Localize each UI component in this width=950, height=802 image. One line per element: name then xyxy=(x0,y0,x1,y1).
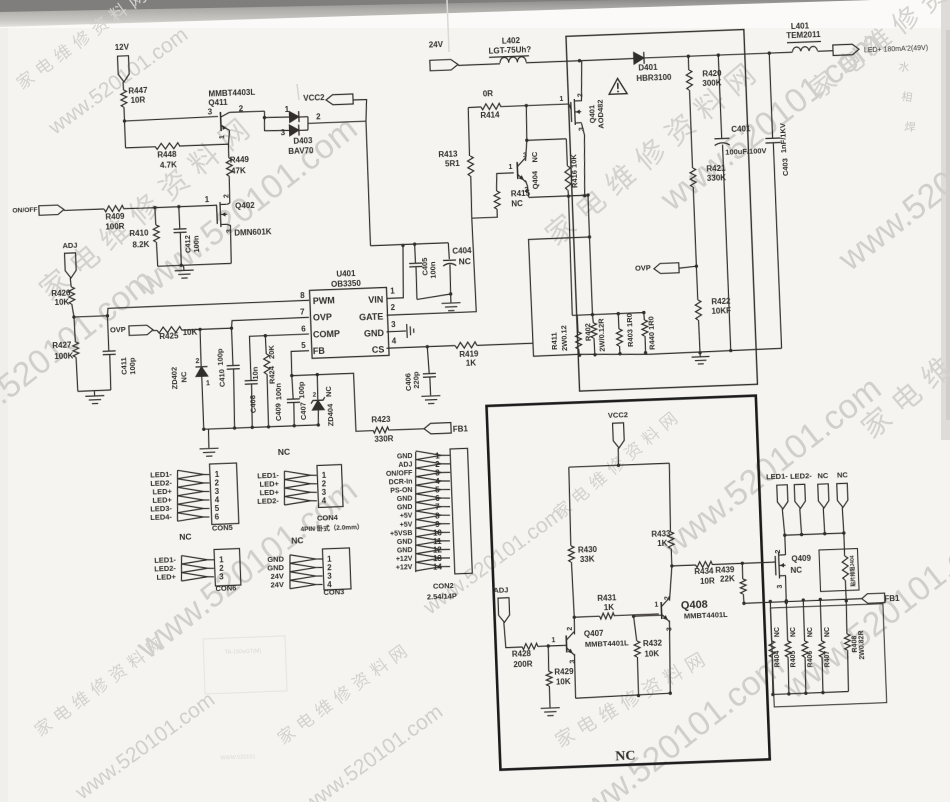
svg-text:Q402: Q402 xyxy=(235,201,255,211)
svg-text:R406: R406 xyxy=(807,650,815,667)
svg-text:R449: R449 xyxy=(230,155,250,165)
svg-text:10K: 10K xyxy=(54,298,69,308)
svg-text:GND: GND xyxy=(364,328,385,339)
svg-text:2: 2 xyxy=(567,626,574,630)
svg-text:R427: R427 xyxy=(52,341,72,351)
svg-text:MMBT4403L: MMBT4403L xyxy=(208,88,255,99)
svg-text:2W/0.12R: 2W/0.12R xyxy=(596,318,606,352)
svg-text:VCC2: VCC2 xyxy=(608,410,628,420)
svg-text:DCR-In: DCR-In xyxy=(389,478,413,486)
svg-text:14: 14 xyxy=(433,562,443,571)
svg-text:R409: R409 xyxy=(105,212,125,222)
svg-text:ADJ: ADJ xyxy=(398,461,412,469)
svg-text:Q409: Q409 xyxy=(791,554,811,564)
svg-text:1nF/1KV: 1nF/1KV xyxy=(778,123,788,153)
svg-text:NC: NC xyxy=(179,371,188,383)
svg-text:R448: R448 xyxy=(157,150,177,160)
svg-text:200R: 200R xyxy=(513,660,533,670)
svg-text:水: 水 xyxy=(898,60,911,74)
svg-text:C401: C401 xyxy=(731,124,751,134)
svg-text:20K: 20K xyxy=(267,344,277,359)
svg-text:2: 2 xyxy=(664,596,671,600)
svg-text:DMN601K: DMN601K xyxy=(234,227,272,237)
svg-text:C403: C403 xyxy=(780,158,790,176)
svg-text:MMBT4401L: MMBT4401L xyxy=(585,638,629,649)
svg-text:LED4-: LED4- xyxy=(150,512,173,522)
svg-text:C409: C409 xyxy=(274,403,284,421)
svg-text:GND: GND xyxy=(397,504,413,512)
svg-text:CON4: CON4 xyxy=(317,513,339,523)
svg-text:ON/OFF: ON/OFF xyxy=(12,207,38,215)
svg-text:3: 3 xyxy=(569,659,576,663)
svg-text:R423: R423 xyxy=(371,415,391,425)
svg-text:+12V: +12V xyxy=(396,556,413,564)
svg-text:NC: NC xyxy=(511,199,523,208)
svg-text:3: 3 xyxy=(578,127,585,131)
svg-text:2.54/14P: 2.54/14P xyxy=(427,591,457,601)
svg-text:NC: NC xyxy=(179,531,192,541)
svg-text:100p: 100p xyxy=(297,381,307,399)
svg-text:R429: R429 xyxy=(554,667,574,677)
svg-text:2: 2 xyxy=(577,93,584,97)
svg-text:OVP: OVP xyxy=(313,312,332,323)
svg-text:C408: C408 xyxy=(248,395,258,413)
svg-text:C410: C410 xyxy=(217,369,227,387)
svg-text:220p: 220p xyxy=(411,371,421,389)
svg-text:LED+: LED+ xyxy=(156,572,176,582)
svg-text:R447: R447 xyxy=(128,86,148,96)
svg-text:PWM: PWM xyxy=(313,295,335,306)
svg-text:ADJ: ADJ xyxy=(493,585,508,595)
svg-text:Q411: Q411 xyxy=(208,98,228,108)
svg-text:GND: GND xyxy=(397,496,413,504)
svg-text:GND: GND xyxy=(397,453,413,461)
svg-text:R414: R414 xyxy=(480,110,500,120)
svg-text:D401: D401 xyxy=(638,63,658,73)
svg-text:10KF: 10KF xyxy=(711,306,731,316)
svg-text:MMBT4401L: MMBT4401L xyxy=(684,610,728,621)
svg-text:10K: 10K xyxy=(644,649,659,659)
svg-text:CS: CS xyxy=(372,345,385,355)
svg-text:1: 1 xyxy=(551,637,555,644)
svg-text:CON2: CON2 xyxy=(433,581,454,591)
svg-text:R428: R428 xyxy=(512,649,532,659)
svg-text:R433: R433 xyxy=(651,529,671,539)
svg-text:FB1: FB1 xyxy=(884,594,900,604)
svg-text:1K: 1K xyxy=(604,603,615,612)
svg-text:2: 2 xyxy=(313,391,317,398)
svg-text:8.2K: 8.2K xyxy=(132,240,149,250)
svg-text:2W0.12: 2W0.12 xyxy=(559,325,569,351)
svg-text:2W0.82R: 2W0.82R xyxy=(858,630,866,659)
svg-text:NC: NC xyxy=(817,471,829,480)
svg-text:R419: R419 xyxy=(459,349,479,359)
svg-text:NC: NC xyxy=(824,627,831,637)
svg-text:CON3: CON3 xyxy=(323,587,344,597)
svg-text:100uF/100V: 100uF/100V xyxy=(725,146,767,157)
svg-text:Q408: Q408 xyxy=(681,599,708,612)
svg-text:4.7K: 4.7K xyxy=(160,160,177,170)
svg-text:10R: 10R xyxy=(130,95,145,105)
svg-text:22K: 22K xyxy=(720,574,735,584)
svg-text:NC: NC xyxy=(324,385,333,397)
svg-text:LED2-: LED2- xyxy=(790,471,813,481)
svg-text:2: 2 xyxy=(195,358,199,365)
svg-text:1: 1 xyxy=(654,601,658,608)
svg-text:100K: 100K xyxy=(54,351,74,361)
svg-text:1: 1 xyxy=(219,135,226,139)
svg-text:100p: 100p xyxy=(128,357,138,375)
svg-text:COMP: COMP xyxy=(313,328,340,339)
svg-text:CON5: CON5 xyxy=(212,523,233,533)
svg-text:L402: L402 xyxy=(502,36,521,46)
svg-text:贴片排阻J404: 贴片排阻J404 xyxy=(849,555,857,587)
svg-text:ZD404: ZD404 xyxy=(326,403,336,427)
svg-text:VCC2: VCC2 xyxy=(303,93,325,103)
svg-text:ZD402: ZD402 xyxy=(170,367,180,390)
svg-text:R405: R405 xyxy=(790,650,798,667)
svg-text:NC: NC xyxy=(459,256,472,266)
svg-text:NC: NC xyxy=(615,749,636,765)
svg-text:100p: 100p xyxy=(215,348,225,366)
svg-text:PS-ON: PS-ON xyxy=(390,487,412,495)
svg-text:2: 2 xyxy=(775,549,782,553)
svg-text:GATE: GATE xyxy=(359,311,384,322)
svg-text:3: 3 xyxy=(777,584,784,588)
svg-text:LED2-: LED2- xyxy=(257,496,280,506)
svg-text:R413: R413 xyxy=(438,150,458,160)
svg-text:10K: 10K xyxy=(556,677,571,687)
svg-text:NC: NC xyxy=(837,470,849,479)
svg-text:C404: C404 xyxy=(452,246,472,256)
svg-text:24V: 24V xyxy=(270,580,284,590)
svg-text:R431: R431 xyxy=(597,593,617,603)
svg-text:NC: NC xyxy=(278,447,291,457)
svg-text:3: 3 xyxy=(226,229,233,233)
svg-text:47K: 47K xyxy=(231,166,246,176)
svg-text:3: 3 xyxy=(523,152,527,159)
svg-text:FB: FB xyxy=(313,346,326,356)
svg-text:+5V: +5V xyxy=(400,513,413,520)
svg-text:NC: NC xyxy=(530,151,539,163)
svg-text:R411: R411 xyxy=(550,332,560,350)
svg-text:NC: NC xyxy=(291,535,304,545)
svg-text:相: 相 xyxy=(901,90,914,104)
svg-text:10K: 10K xyxy=(182,328,197,338)
svg-text:CON6: CON6 xyxy=(215,583,236,593)
svg-text:+12V: +12V xyxy=(396,564,413,572)
svg-text:FB1: FB1 xyxy=(453,424,469,434)
svg-text:GND: GND xyxy=(397,538,413,546)
svg-text:R430: R430 xyxy=(578,545,598,555)
svg-text:0R: 0R xyxy=(483,89,494,98)
svg-text:1K: 1K xyxy=(657,539,668,548)
svg-text:24V: 24V xyxy=(429,40,444,50)
svg-text:1: 1 xyxy=(559,96,563,103)
svg-text:100n: 100n xyxy=(192,235,202,253)
svg-text:R424: R424 xyxy=(267,365,277,384)
svg-text:1K: 1K xyxy=(466,358,477,367)
svg-text:VIN: VIN xyxy=(368,295,383,306)
svg-text:HBR3100: HBR3100 xyxy=(636,73,672,83)
svg-text:U401: U401 xyxy=(336,269,356,279)
svg-text:100n: 100n xyxy=(428,261,438,279)
svg-text:TEM2011: TEM2011 xyxy=(786,30,821,40)
svg-text:+5VSB: +5VSB xyxy=(390,530,413,538)
svg-text:AOD482: AOD482 xyxy=(595,99,605,129)
svg-text:NC: NC xyxy=(790,566,802,575)
svg-text:Q407: Q407 xyxy=(584,629,604,639)
svg-text:5R1: 5R1 xyxy=(445,159,461,169)
svg-text:1: 1 xyxy=(206,380,210,387)
svg-text:NC: NC xyxy=(774,627,781,637)
svg-text:NC: NC xyxy=(790,627,797,637)
svg-text:100n: 100n xyxy=(274,383,284,401)
svg-text:R432: R432 xyxy=(643,638,663,648)
svg-text:33K: 33K xyxy=(580,554,595,564)
svg-text:3: 3 xyxy=(666,627,673,631)
svg-text:R403 1R0: R403 1R0 xyxy=(625,313,635,347)
svg-text:ON/OFF: ON/OFF xyxy=(386,470,413,478)
svg-text:12V: 12V xyxy=(115,43,130,53)
svg-text:BAV70: BAV70 xyxy=(288,146,314,156)
svg-text:R434: R434 xyxy=(694,567,714,577)
svg-text:焊: 焊 xyxy=(904,119,917,134)
svg-text:+5V: +5V xyxy=(400,521,413,528)
svg-text:10n: 10n xyxy=(251,366,261,380)
svg-text:NC: NC xyxy=(807,627,814,637)
svg-text:R407: R407 xyxy=(824,650,832,667)
svg-text:GND: GND xyxy=(397,547,413,555)
svg-text:10R: 10R xyxy=(700,576,715,586)
svg-text:R402: R402 xyxy=(583,323,593,341)
svg-text:LED1-: LED1- xyxy=(766,472,789,482)
svg-text:R410: R410 xyxy=(129,229,149,239)
svg-text:D403: D403 xyxy=(293,136,313,146)
svg-text:100R: 100R xyxy=(105,222,125,232)
svg-text:2: 2 xyxy=(524,187,528,194)
svg-text:Q404: Q404 xyxy=(530,170,540,190)
svg-text:R440 1R0: R440 1R0 xyxy=(646,316,656,350)
svg-text:330R: 330R xyxy=(374,434,394,444)
svg-text:R425: R425 xyxy=(159,331,179,341)
svg-text:C407: C407 xyxy=(299,402,309,420)
svg-text:OVP: OVP xyxy=(635,263,651,273)
svg-text:R416 10K: R416 10K xyxy=(569,154,579,189)
svg-text:OB3350: OB3350 xyxy=(331,279,362,289)
svg-text:R404: R404 xyxy=(774,650,782,667)
svg-text:ADJ: ADJ xyxy=(62,241,77,251)
svg-text:OVP: OVP xyxy=(110,325,126,335)
svg-text:LGT-75Uh?: LGT-75Uh? xyxy=(488,45,531,56)
svg-text:1: 1 xyxy=(508,164,512,171)
svg-text:2: 2 xyxy=(223,194,230,198)
